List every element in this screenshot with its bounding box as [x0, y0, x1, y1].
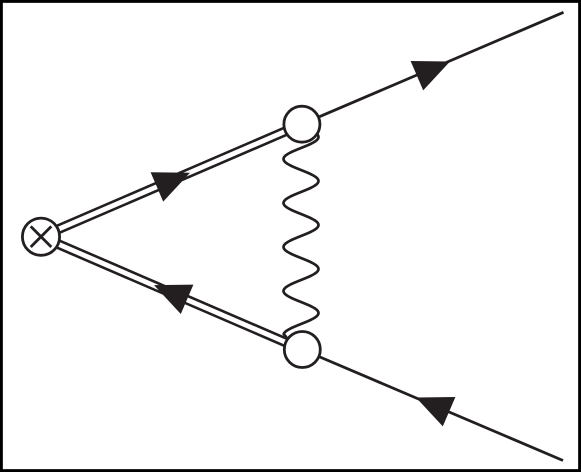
node: bottom interaction blob [284, 332, 320, 368]
wire: top double fermion line from vertex X to top blob [40, 121, 304, 240]
arrow on top double line (toward top blob) [151, 172, 190, 201]
wire: bottom double fermion line from vertex X to bottom blob [40, 233, 304, 353]
node: top interaction blob [284, 106, 320, 142]
wire: outgoing top-right fermion leg [302, 12, 564, 124]
arrow on bottom double line (toward vertex X) [154, 285, 193, 314]
arrow on bottom-right leg (toward bottom blob) [416, 397, 455, 426]
arrow on outgoing top-right leg [411, 61, 450, 90]
node: crossed-circle operator insertion vertex [22, 218, 59, 255]
photon wavy propagator between the two blobs [284, 128, 319, 342]
wire: incoming bottom-right fermion leg [302, 350, 563, 461]
